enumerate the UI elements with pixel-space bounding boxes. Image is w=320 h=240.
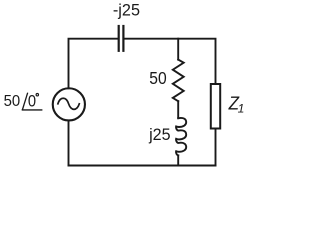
AC source V1 circle <box>53 88 85 120</box>
wire source bottom <box>68 121 70 166</box>
svg-text:-j25: -j25 <box>113 0 140 19</box>
svg-text:50: 50 <box>4 93 21 110</box>
svg-text:1: 1 <box>238 102 245 116</box>
wire top-left (source top to capacitor) <box>69 39 118 89</box>
capacitor C (-j25) <box>119 25 124 52</box>
svg-text:0: 0 <box>28 92 36 110</box>
wire top-right (capacitor to right branch corner) <box>124 39 215 84</box>
svg-text:j25: j25 <box>148 125 170 144</box>
impedance box Z1 <box>211 84 220 129</box>
wire middle branch top <box>177 39 179 60</box>
resistor R (50) <box>173 60 184 102</box>
AC source sine wave <box>58 98 79 109</box>
angle symbol slash <box>23 93 28 109</box>
wire inductor to bottom <box>177 155 179 165</box>
svg-text:50: 50 <box>149 69 166 88</box>
wire resistor to inductor <box>177 101 179 118</box>
bottom wire <box>69 165 216 167</box>
degree symbol <box>36 94 38 96</box>
inductor L (j25) <box>176 118 186 155</box>
angle symbol underline <box>22 109 41 111</box>
wire box bottom to bottom wire <box>215 129 217 166</box>
